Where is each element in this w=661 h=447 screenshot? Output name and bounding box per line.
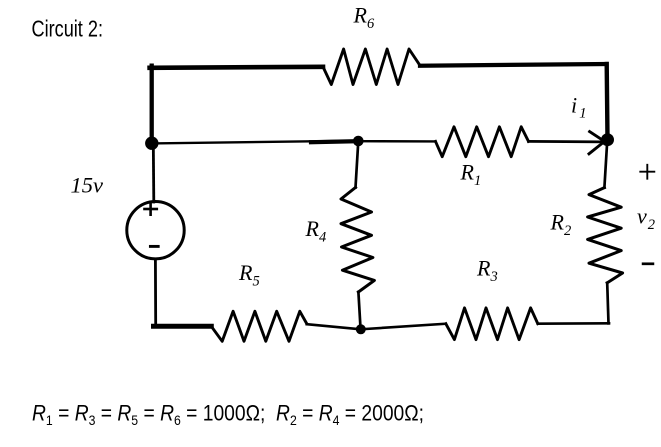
wire — [311, 141, 358, 142]
wire — [307, 324, 361, 329]
resistor R5 — [211, 311, 306, 341]
wire — [358, 292, 360, 328]
node C — [601, 133, 614, 146]
wire — [154, 324, 212, 329]
svg-text:15v: 15v — [71, 173, 104, 198]
svg-text:R6: R6 — [353, 3, 375, 33]
wire — [152, 143, 155, 202]
resistor R4 — [341, 188, 374, 293]
wire — [150, 67, 323, 68]
label - of v2 — [643, 262, 653, 265]
svg-text:i1: i1 — [571, 93, 587, 122]
label - of source — [150, 245, 158, 248]
svg-text:R2: R2 — [550, 210, 572, 240]
current arrow i1 — [589, 132, 606, 154]
svg-text:R5: R5 — [238, 260, 260, 290]
svg-text:v2: v2 — [637, 204, 655, 234]
wire — [150, 66, 154, 143]
svg-text:Circuit 2:: Circuit 2: — [32, 16, 104, 42]
wire — [152, 141, 358, 144]
node D — [356, 324, 366, 334]
voltage source V1 — [127, 202, 184, 259]
wire — [154, 259, 157, 326]
wire — [605, 64, 610, 139]
svg-text:R1: R1 — [460, 159, 482, 189]
wire — [538, 322, 609, 325]
wire — [529, 140, 602, 143]
wire — [604, 140, 607, 188]
wire — [361, 324, 446, 330]
resistor R3 — [446, 308, 538, 340]
wire — [607, 283, 608, 324]
label + of v2 — [640, 165, 654, 179]
svg-text:R3: R3 — [476, 256, 498, 286]
node B — [353, 136, 364, 147]
wire — [358, 140, 435, 143]
resistor R2 — [588, 188, 623, 283]
wire — [356, 141, 359, 188]
resistor R1 — [436, 127, 529, 157]
label + of source — [145, 203, 157, 215]
resistor R6 — [323, 49, 420, 85]
svg-text:R4: R4 — [305, 216, 327, 246]
wire — [420, 64, 607, 66]
node A — [145, 137, 158, 150]
svg-text:R1 = R3 = R5 = R6 = 1000Ω; R2: R1 = R3 = R5 = R6 = 1000Ω; R2 = R4 = 200… — [32, 401, 424, 429]
